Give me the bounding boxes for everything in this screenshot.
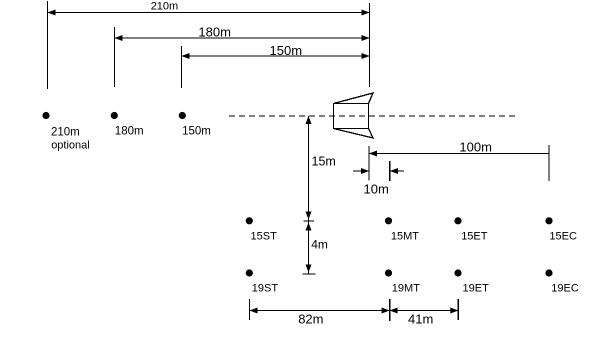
arrow left 150m (182, 53, 190, 59)
dimension line 100m (369, 153, 549, 155)
tick 82m-41m middle (389, 299, 391, 321)
svg-text:100m: 100m (459, 139, 492, 154)
dot 210m optional (42, 112, 49, 119)
shooting line vertical upper (369, 3, 371, 87)
extension line 180m post (114, 27, 116, 87)
arrow left 180m (115, 35, 123, 41)
dimension line 210m (48, 12, 370, 14)
dimension 10m right tail (390, 170, 404, 172)
dot 15EC (545, 217, 552, 224)
svg-text:82m: 82m (298, 312, 323, 327)
svg-text:15MT: 15MT (391, 231, 419, 243)
arrow left 210m (48, 10, 56, 16)
dot 19MT (385, 269, 392, 276)
svg-text:19ET: 19ET (463, 283, 490, 295)
svg-text:19EC: 19EC (551, 283, 579, 295)
arrow 10m pointing right (361, 168, 369, 174)
tick 100m right end (548, 145, 550, 181)
svg-text:180m: 180m (115, 126, 144, 138)
svg-text:210m: 210m (51, 127, 80, 139)
arrow 4m bottom pointing down (306, 265, 312, 273)
dot 19ET (454, 269, 461, 276)
tick 10m right (389, 161, 391, 181)
tick 15m bottom (304, 220, 315, 222)
dimension line 15m and 4m vertical (308, 116, 310, 274)
dimension 10m left tail (353, 170, 369, 172)
svg-text:15ET: 15ET (461, 231, 488, 243)
svg-text:15m: 15m (312, 155, 336, 169)
svg-text:180m: 180m (198, 25, 231, 40)
target butt bottom flap (334, 129, 374, 139)
arrow 15m bottom pointing down (306, 212, 312, 220)
tick 82m left (249, 299, 251, 320)
dot 150m (179, 112, 186, 119)
dot 180m (111, 112, 118, 119)
arrow left 41m (390, 308, 398, 314)
arrow 15m top pointing up (306, 116, 312, 124)
dot 15MT (385, 217, 392, 224)
arrow right 82m (382, 308, 390, 314)
dot 15ET (454, 217, 461, 224)
dot 15ST (246, 217, 253, 224)
extension line 210m post (47, 1, 49, 89)
dot 19EC (545, 269, 552, 276)
arrow 4m top pointing up (306, 223, 312, 231)
svg-text:15ST: 15ST (251, 231, 278, 243)
svg-text:41m: 41m (408, 312, 433, 327)
arrow right 180m (362, 35, 370, 41)
arrow right 210m (362, 10, 370, 16)
arrow 10m pointing left (390, 168, 398, 174)
dimension line 180m (115, 37, 370, 39)
svg-text:150m: 150m (270, 43, 303, 58)
extension line 150m post (181, 46, 183, 88)
dimension line 41m (390, 310, 459, 312)
target butt rectangle (334, 104, 369, 129)
shooting line lower segment (368, 146, 370, 181)
svg-text:19ST: 19ST (252, 283, 279, 295)
svg-text:4m: 4m (311, 238, 328, 252)
svg-text:15EC: 15EC (549, 231, 577, 243)
arrow left 100m (369, 151, 377, 157)
dot 19ST (246, 269, 253, 276)
centre dashed line (229, 115, 516, 117)
tick 41m right (457, 299, 459, 320)
arrow left 82m (250, 308, 258, 314)
arrow right 150m (362, 53, 370, 59)
arrow right 41m (450, 308, 458, 314)
svg-text:150m: 150m (182, 126, 211, 138)
svg-text:210m: 210m (151, 1, 179, 13)
svg-text:10m: 10m (364, 181, 389, 196)
dimension line 82m (250, 310, 390, 312)
dimension line 150m (182, 55, 370, 57)
svg-text:19MT: 19MT (392, 283, 420, 295)
target butt top flap (334, 93, 374, 104)
svg-text:optional: optional (51, 140, 90, 152)
tick 4m bottom (303, 273, 316, 275)
